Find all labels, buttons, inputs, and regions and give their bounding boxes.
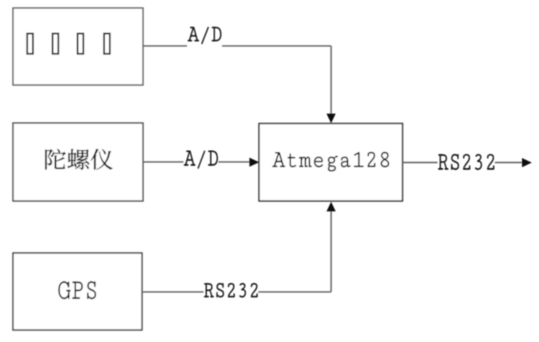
label A/D (top) bbox=[188, 27, 221, 44]
tofu char 3 bbox=[78, 34, 84, 54]
wire: vertical rise to MCU bottom bbox=[330, 211, 332, 292]
arrowhead: into MCU bottom bbox=[327, 202, 336, 212]
wire: MCU to RS232 out (left segment) bbox=[403, 162, 438, 164]
label RS232 (bottom) bbox=[204, 283, 257, 297]
wire: sensor to A/D (left segment) bbox=[143, 45, 187, 47]
label GPS bbox=[59, 281, 96, 299]
box: gyroscope bbox=[13, 123, 143, 201]
wire: GPS to RS232 (left segment) bbox=[142, 291, 204, 293]
arrowhead: into MCU left bbox=[249, 158, 259, 167]
arrowhead: into MCU top bbox=[327, 114, 336, 124]
label 陀螺仪 bbox=[45, 149, 112, 170]
wire: A/D mid to MCU bbox=[218, 161, 250, 163]
label Atmega128 bbox=[273, 152, 389, 171]
arrowhead: RS232 output bbox=[522, 158, 532, 167]
tofu char 2 bbox=[53, 34, 59, 54]
wire: RS232 bottom horizontal (right segment) bbox=[258, 291, 331, 293]
box: sensor block (tofu labels) bbox=[13, 8, 143, 85]
label A/D (middle) bbox=[184, 151, 218, 169]
label RS232 (right) bbox=[438, 154, 494, 170]
wire: gyro to A/D (left segment) bbox=[143, 161, 183, 163]
tofu char 4 bbox=[104, 34, 110, 54]
wire: A/D top horizontal (right segment) bbox=[222, 45, 331, 47]
wire: vertical drop to MCU top bbox=[330, 46, 332, 114]
box: Atmega128 MCU bbox=[259, 124, 403, 202]
box: GPS bbox=[13, 253, 142, 330]
tofu char 1 bbox=[27, 34, 33, 54]
wire: RS232 out to arrow bbox=[495, 162, 523, 164]
